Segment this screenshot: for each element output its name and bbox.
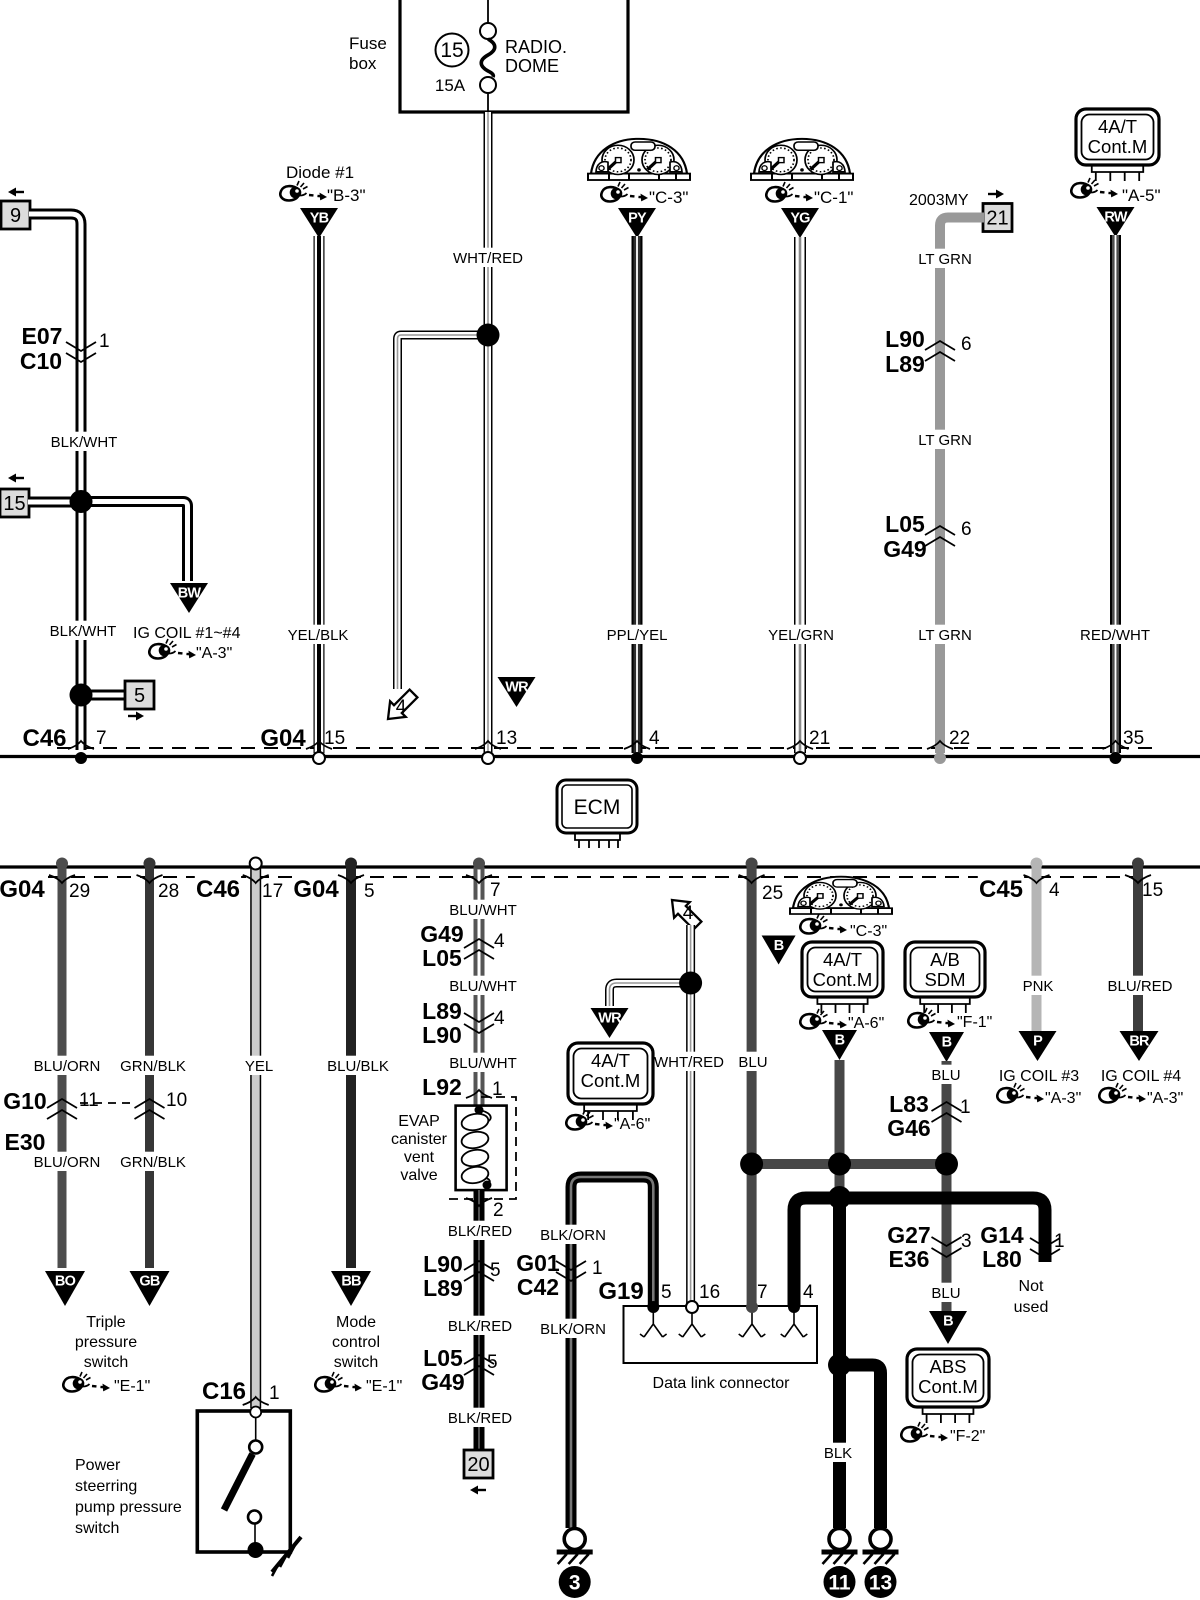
connector name G10 [3,1088,46,1114]
eye see B-3 (diode) [280,181,327,201]
gauge cluster icon C-3 top [588,139,690,180]
wire color label PNK [1022,976,1053,995]
svg-text:Triple: Triple [86,1314,126,1331]
svg-text:L89: L89 [885,351,925,377]
pin chevron C46-7 [68,741,94,749]
connector name G49 lower [420,921,463,947]
pin 1 of L83/G46 [960,1097,971,1118]
terminal loop pin 35 [1110,752,1122,764]
svg-text:C45: C45 [979,876,1023,903]
connector row name G19 [598,1278,643,1305]
svg-text:11: 11 [828,1572,851,1595]
inline connector G01/C42 chevrons [556,1261,586,1281]
wire code arrow BW to IG coils [170,583,208,613]
connector row name C16 [201,1376,247,1405]
wire YEL ECM pin17 to pressure switch [250,867,261,1408]
connector name L89 b [423,1275,463,1301]
junction WHT/RED [477,324,500,347]
pin chevron G04-15 [306,741,332,749]
ECM pin 5 [364,881,375,902]
ECM pin 28 [158,881,179,902]
DLC pin 4 [803,1282,814,1303]
wire code arrow B under SDM [929,1032,964,1062]
connector name L80 [982,1246,1022,1272]
svg-text:4: 4 [803,1282,814,1303]
ECM pin 13 [496,728,517,749]
eye see A-3 coil3 [997,1083,1044,1103]
junction BLU bus left [740,1153,763,1176]
svg-text:BO: BO [55,1274,76,1290]
wire color label YEL [243,1056,274,1075]
connector row name C46 pin17 [195,874,241,903]
pin chevron pin 22 [927,741,953,749]
module 4A/T Cont.M bottom right [802,942,883,1013]
wire color label PPL/YEL [605,625,670,644]
pin chevron 25 [739,875,765,883]
svg-text:4: 4 [1049,880,1060,901]
see label B-3 [327,186,366,205]
connector row name G04 pin5 [293,874,340,903]
pin 10 of G10/E30 [166,1090,187,1111]
svg-text:BLU/ORN: BLU/ORN [34,1154,101,1171]
inline connector L83/G46 chevrons [932,1102,962,1122]
switch label Mode [336,1314,376,1331]
wire color label WHT/RED bottom [654,1052,724,1071]
wire code arrow B under 4A/T [822,1030,857,1060]
svg-text:"A-3": "A-3" [1147,1090,1183,1107]
svg-text:BLU/RED: BLU/RED [1107,978,1172,995]
svg-text:G46: G46 [887,1115,930,1141]
upper section separator line [0,755,1200,758]
wire color label BLK/WHT lower [50,621,117,640]
DLC pin7 terminal [746,1301,758,1313]
svg-text:B: B [942,1035,952,1051]
svg-text:LT GRN: LT GRN [918,432,972,449]
data link connector box [624,1306,818,1363]
svg-text:control: control [332,1334,380,1351]
svg-text:L89: L89 [422,998,462,1024]
wire color label GRN/BLK 2 [120,1152,186,1171]
svg-text:BLK/ORN: BLK/ORN [540,1227,606,1244]
ECM pin C45-4 [1049,880,1060,901]
wire color label BLU/BLK [326,1056,391,1075]
label Data link connector [653,1375,791,1392]
junction BLU bus right [935,1153,958,1176]
page connector box 5 [125,681,154,709]
svg-text:5: 5 [490,1260,501,1281]
wire BLU/ORN ECM pin29 to BO arrow [58,867,67,1268]
svg-text:IG COIL #4: IG COIL #4 [1101,1068,1181,1085]
junction WHT/RED bottom [679,972,702,995]
see label C-1 [814,188,853,207]
DLC pin 5 [661,1282,672,1303]
svg-text:G49: G49 [421,1369,464,1395]
svg-text:BLU/WHT: BLU/WHT [449,978,517,995]
connector name L90 b [423,1251,463,1277]
wire BLK down to ground 11 [833,1196,846,1528]
connector name L05 lower [422,945,462,971]
svg-text:steerring: steerring [75,1478,137,1495]
svg-text:4: 4 [683,903,694,924]
module 4A/T Cont.M bottom left [568,1043,653,1120]
svg-text:A/B: A/B [930,949,960,970]
svg-text:G19: G19 [598,1278,643,1305]
connector name L90 [885,326,925,352]
svg-text:"A-6": "A-6" [848,1015,884,1032]
DLC pin4 terminal [788,1301,800,1313]
module A/B SDM [905,942,985,1013]
wire code arrow B to ABS [929,1311,967,1344]
svg-text:box: box [349,54,377,73]
eye see E-1 mode control switch [315,1372,362,1392]
destination label IG COIL #1~#4 [133,625,241,642]
fuse box outline [400,0,628,112]
svg-text:Cont.M: Cont.M [813,969,873,990]
connector name C42 [517,1274,559,1300]
pin 5 of L90/L89 [490,1260,501,1281]
wire code arrow BR [1120,1031,1159,1061]
eye see C-3 bottom [800,914,847,934]
pin chevron 29 [49,875,75,883]
svg-text:YEL/GRN: YEL/GRN [768,627,834,644]
DLC pin5 terminal [647,1301,659,1313]
svg-text:E36: E36 [889,1246,930,1272]
wire color label GRN/BLK 1 [120,1056,186,1075]
svg-text:L05: L05 [885,511,925,537]
connector row name G04 [260,725,306,752]
upper ECM connector dashed line [57,747,1152,749]
svg-text:L83: L83 [889,1091,929,1117]
eye see A-6 right [800,1009,847,1029]
gauge cluster icon C-1 [751,139,853,180]
ECM pin 21 [809,728,830,749]
see label E-1 left [114,1378,150,1395]
wire BLK branch to ground 13 [840,1365,881,1528]
svg-text:RED/WHT: RED/WHT [1080,627,1150,644]
pin chevron pin 35 [1103,741,1129,749]
svg-text:BLU/WHT: BLU/WHT [449,1055,517,1072]
wire code arrow B floating [762,936,796,965]
eye see E-1 triple pressure switch [63,1372,110,1392]
inline connector L90/L89 chevrons 2 [464,1261,494,1281]
pin L92-1 [492,1079,503,1100]
svg-text:BLK/RED: BLK/RED [448,1223,512,1240]
svg-text:7: 7 [96,728,107,749]
wire color label LT GRN 2 [917,430,973,449]
inline connector G27/E36 chevrons [932,1237,962,1257]
svg-text:G49: G49 [420,921,463,947]
junction BLK branch [828,1354,851,1377]
dome terminal pin 25 [746,858,758,870]
svg-text:Mode: Mode [336,1314,376,1331]
connector name C10 [20,348,62,374]
wire BLU ECM pin25 to DLC pin 7 [747,867,757,1306]
connector name L89 lower [422,998,462,1024]
wire branch WHT/RED to WR arrow [610,983,691,1006]
pin chevron C45-4 [1024,875,1050,883]
svg-text:BB: BB [341,1274,361,1290]
see label C-3 bottom [850,923,887,940]
svg-text:9: 9 [10,205,21,227]
wire branch to BW arrow [81,502,188,582]
page connector box 20 [464,1450,493,1478]
svg-text:L80: L80 [982,1246,1022,1272]
svg-text:PY: PY [628,211,647,227]
ECM pin 7 lower [490,880,501,901]
svg-text:YEL: YEL [245,1058,273,1075]
see label E-1 right [366,1378,402,1395]
wire code arrow BO [45,1271,85,1306]
inline connector G10/E30 chevrons wire29 [47,1099,77,1119]
svg-text:13: 13 [869,1572,892,1595]
svg-text:pressure: pressure [75,1334,137,1351]
pin 5 of L05/G49 [487,1352,498,1373]
svg-text:"A-5": "A-5" [1122,186,1161,205]
svg-text:E30: E30 [5,1129,46,1155]
svg-text:B: B [835,1033,845,1049]
inline connector G49/L05 chevrons [464,939,494,959]
see label A-6 right [848,1015,884,1032]
svg-text:BLU: BLU [931,1067,960,1084]
svg-text:Cont.M: Cont.M [918,1376,978,1397]
svg-text:G27: G27 [887,1222,930,1248]
eye see A-5 [1071,178,1118,198]
EVAP canister vent valve box with solenoid coil [456,1106,507,1191]
dome terminal pin 5 [345,858,357,870]
eye see C-3 top [601,182,648,202]
svg-text:RADIO.: RADIO. [505,37,567,57]
wire code arrow YG [781,208,819,238]
connector name G49 b [421,1369,464,1395]
wire BLK/WHT from box 9 down to C46 pin 7 [29,214,81,750]
wire color label BLU/WHT 3 [449,1053,517,1072]
svg-text:7: 7 [757,1282,768,1303]
junction on BLK/WHT at box 15 [70,490,93,513]
eye see C-1 [766,182,813,202]
wire color label BLK/ORN 1 [540,1225,606,1244]
EVAP label 3 [404,1149,435,1166]
ECM pin 15 lower [1142,880,1163,901]
svg-text:switch: switch [334,1354,378,1371]
eye see A-3 (IG coil) [149,639,196,659]
wire BLK/RED EVAP valve to box 20 [474,1190,485,1450]
dome terminal C45-4 [1031,858,1043,870]
svg-text:Data link connector: Data link connector [653,1375,791,1392]
svg-text:1: 1 [269,1383,280,1404]
pin chevron 15 lower [1125,875,1151,883]
svg-text:4: 4 [649,728,660,749]
svg-text:BLU/WHT: BLU/WHT [449,902,517,919]
svg-text:1: 1 [1054,1231,1065,1252]
switch label steerring [75,1478,137,1495]
wire code arrow WR floating top [498,677,536,707]
svg-text:6: 6 [961,519,972,540]
svg-text:G14: G14 [980,1222,1024,1248]
connector name G01 [516,1250,560,1276]
svg-text:RW: RW [1104,210,1127,226]
wire code arrow BB [331,1271,371,1306]
pin 1 of G01/C42 [592,1258,603,1279]
dome terminal pin 28 [144,858,156,870]
svg-text:Cont.M: Cont.M [581,1070,641,1091]
lower section separator line [0,865,1200,868]
svg-text:2: 2 [493,1200,504,1221]
inline connector G14/L80 chevrons [1030,1238,1060,1258]
inline connector L05/G49 chevrons 2 [464,1355,494,1375]
svg-text:15: 15 [440,39,463,62]
svg-text:17: 17 [262,881,283,902]
inline connector L90/L89 chevrons [925,341,955,361]
svg-text:28: 28 [158,881,179,902]
svg-text:BLU/ORN: BLU/ORN [34,1058,101,1075]
wire color label YEL/GRN [768,625,834,644]
svg-text:Diode #1: Diode #1 [286,163,354,182]
svg-text:Fuse: Fuse [349,34,387,53]
svg-text:"C-1": "C-1" [814,188,853,207]
svg-text:WHT/RED: WHT/RED [654,1054,724,1071]
eye see F-2 [901,1422,948,1442]
svg-text:15: 15 [3,493,25,515]
ECM pin 15 [324,728,345,749]
arrow right below box 5 [128,712,144,721]
arrow left above box 9 [8,188,24,197]
svg-text:3: 3 [961,1231,972,1252]
wire color label RED/WHT [1080,625,1150,644]
svg-text:L90: L90 [422,1022,462,1048]
wire color label BLK/RED 2 [448,1316,513,1335]
svg-text:4A/T: 4A/T [823,949,862,970]
svg-text:LT GRN: LT GRN [918,627,972,644]
wire WHT/RED arrow4 to DLC pin 16 [686,925,695,1306]
pin 4 of L89/L90 [494,1008,505,1029]
svg-text:PNK: PNK [1023,978,1054,995]
pin C16-1 [269,1383,280,1404]
dashed link G10/E30 between wires [80,1102,136,1104]
module 4A/T Cont.M top right [1076,109,1159,181]
connector name G14 [980,1222,1024,1248]
svg-text:L90: L90 [885,326,925,352]
svg-text:YG: YG [790,211,810,227]
svg-text:L89: L89 [423,1275,463,1301]
svg-text:"E-1": "E-1" [366,1378,402,1395]
connector name L83 [889,1091,929,1117]
svg-text:GB: GB [139,1274,159,1290]
power steering pump pressure switch box [197,1407,301,1577]
pin 6 of L05/G49 [961,519,972,540]
wire YEL/BLK down to G04 pin 15 [314,236,325,753]
pin chevron 5 [338,875,364,883]
connector row name G04 pin29 [0,874,45,903]
wire BLU/WHT ECM pin7 to EVAP valve [474,867,485,1106]
connector name E36 [889,1246,930,1272]
svg-text:ABS: ABS [929,1356,966,1377]
dome terminal pin 29 [56,858,68,870]
wire WHT/RED from fuse box to ECM pin 13 [484,112,493,753]
svg-text:BLK: BLK [824,1445,852,1462]
wire color label BLU/WHT 1 [449,900,517,919]
connector name L89 [885,351,925,377]
wire color label BLK [822,1443,853,1462]
svg-text:"C-3": "C-3" [850,923,887,940]
label Not used 2 [1014,1299,1049,1316]
svg-text:YB: YB [310,211,329,227]
lower ECM connector dashed line [48,876,1150,878]
svg-text:C46: C46 [22,725,66,752]
svg-text:5: 5 [134,685,145,707]
svg-text:E07: E07 [22,323,63,349]
svg-text:G04: G04 [0,876,45,903]
connector name E30 [5,1129,46,1155]
ground 13 [863,1529,899,1599]
wire branch WHT/RED to arrow 4 [398,335,489,689]
switch label Power [75,1457,121,1474]
pin chevron C16-1 [243,1397,269,1405]
dome terminal pin 17 [250,858,262,870]
wire color label BLU sdm [930,1065,961,1084]
svg-text:"F-2": "F-2" [950,1428,985,1445]
module ABS Cont.M [907,1349,989,1423]
connector name L92 [422,1074,462,1100]
inline connector E07/C10 chevrons [66,342,96,362]
svg-text:"C-3": "C-3" [649,188,688,207]
svg-text:3: 3 [569,1572,581,1595]
switch label pressure [75,1334,137,1351]
switch label switch3 [334,1354,378,1371]
connector name L05 b [423,1345,463,1371]
wire color label BLK/RED 3 [448,1408,513,1427]
ECM module [557,780,637,848]
wire code arrow P [1019,1031,1057,1061]
svg-text:IG COIL #1~#4: IG COIL #1~#4 [133,625,241,642]
arrow left below box 20 [470,1486,486,1495]
wire color label BLK/ORN 2 [540,1319,606,1338]
svg-text:20: 20 [467,1454,489,1476]
svg-text:6: 6 [961,334,972,355]
wire BLU from SDM B arrow to ABS B arrow [942,1061,952,1311]
svg-text:5: 5 [487,1352,498,1373]
wire BLU horizontal bus [752,1159,947,1169]
svg-text:PPL/YEL: PPL/YEL [607,627,668,644]
pin 1 of E07/C10 [99,331,110,352]
wire code arrow YB [300,208,338,238]
svg-text:5: 5 [661,1282,672,1303]
wire YEL/GRN down to ECM pin 21 [794,237,806,753]
svg-text:"A-3": "A-3" [196,645,232,662]
svg-text:GRN/BLK: GRN/BLK [120,1058,186,1075]
svg-text:15A: 15A [435,76,466,95]
svg-text:G04: G04 [293,876,339,903]
wire BLU/BLK ECM pin5 to BB arrow [346,867,356,1268]
arrow left above box 15 [8,474,24,483]
wire color label BLU/ORN 2 [34,1152,101,1171]
svg-text:15: 15 [324,728,345,749]
svg-text:21: 21 [809,728,830,749]
svg-text:Power: Power [75,1457,121,1474]
svg-text:BLK/RED: BLK/RED [448,1318,512,1335]
eye see F-1 [908,1008,955,1028]
page connector box 9 [1,201,30,229]
svg-text:BLU/BLK: BLU/BLK [327,1058,389,1075]
EVAP label 1 [398,1113,440,1130]
pin chevron 17 [243,875,269,883]
junction BLU bus mid [828,1153,851,1176]
svg-text:15: 15 [1142,880,1163,901]
svg-text:C16: C16 [202,1378,246,1405]
see label F-1 [957,1014,992,1031]
svg-text:Cont.M: Cont.M [1088,136,1148,157]
EVAP label 2 [391,1131,448,1148]
fuse element symbol [480,0,496,112]
